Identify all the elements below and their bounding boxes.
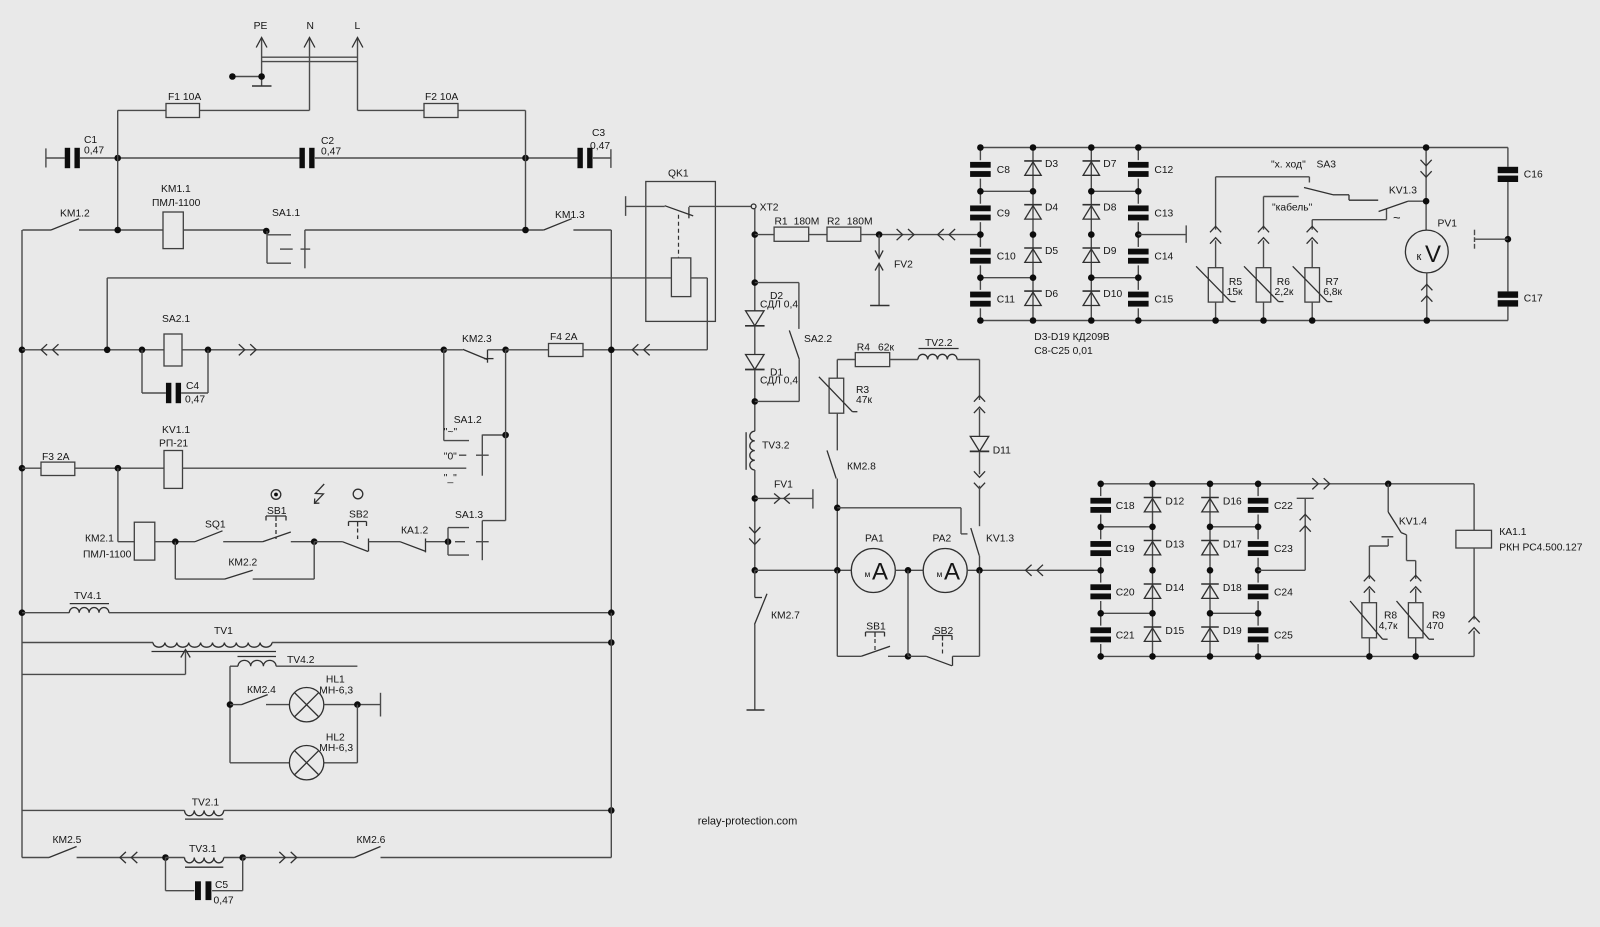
node KV1.3 PV1: [1423, 198, 1430, 205]
wire C1-C2: [80, 157, 300, 159]
wire F4 right: [583, 349, 707, 351]
svg-text:XT2: XT2: [760, 203, 779, 214]
coil SA2.1: [162, 314, 190, 366]
wire PV1 bottom: [1426, 273, 1428, 321]
capacitor C17: [1498, 291, 1543, 306]
contact KM1.2: [23, 209, 91, 231]
svg-text:R2: R2: [827, 217, 840, 228]
diode D18: [1201, 583, 1242, 598]
arrester FV1: [755, 479, 813, 508]
svg-text:А: А: [944, 559, 960, 586]
rheostat R7: [1293, 220, 1343, 324]
node FV1: [752, 495, 759, 502]
node coil row: [104, 347, 111, 354]
wire SA1.3 common corner: [482, 521, 505, 561]
svg-text:C2: C2: [321, 136, 334, 147]
wire D1 down: [754, 370, 756, 431]
svg-text:C1: C1: [84, 135, 97, 146]
node PV1 bottom: [1424, 317, 1431, 324]
node HL1 right: [354, 701, 361, 708]
left bus vertical: [21, 230, 23, 858]
capacitor C1: [65, 135, 105, 168]
wire KV row: [837, 508, 967, 534]
diode D4: [1024, 203, 1058, 220]
svg-text:TV1: TV1: [214, 626, 233, 637]
winding TV3.2: [746, 431, 790, 470]
lamp HL2: [289, 733, 353, 780]
svg-text:C24: C24: [1274, 587, 1293, 598]
node D2 top: [752, 279, 759, 286]
svg-text:SA2.1: SA2.1: [162, 314, 190, 325]
wire to F4: [506, 349, 549, 351]
svg-text:D15: D15: [1165, 626, 1184, 637]
wire bridge1 junction rows: [980, 191, 1138, 277]
contact KM2.2 loop: [175, 542, 314, 579]
contact SB2: [314, 539, 400, 552]
wire bridge1 bottom rail: [980, 320, 1508, 322]
node KM2.4: [227, 701, 234, 708]
svg-text:D4: D4: [1045, 203, 1058, 214]
indicator lamp symbol: [271, 490, 281, 500]
wire bridge1 top rail: [980, 147, 1508, 149]
diode D5: [1024, 246, 1058, 263]
node C2 branch: [522, 227, 529, 234]
wire coil row left corner: [106, 278, 108, 350]
connector arrow left SA2.1 row: [41, 344, 58, 355]
diode D12: [1144, 497, 1185, 512]
svg-text:PA2: PA2: [933, 534, 952, 545]
svg-text:C22: C22: [1274, 501, 1293, 512]
svg-text:KV1.1: KV1.1: [162, 425, 190, 436]
svg-text:KV1.4: KV1.4: [1399, 517, 1427, 528]
wire D2-D1: [754, 326, 756, 354]
svg-text:D3-D19 КД209В: D3-D19 КД209В: [1034, 332, 1109, 343]
svg-text:KM2.3: KM2.3: [462, 334, 492, 345]
svg-text:D8: D8: [1103, 203, 1116, 214]
contact KV1.3: [971, 528, 1015, 570]
svg-text:КМ2.5: КМ2.5: [53, 835, 82, 846]
switch SA3: [1216, 160, 1379, 201]
fuse F4 2A: [549, 332, 584, 357]
wire TV3.2 down: [754, 470, 756, 570]
arrester FV2: [875, 235, 913, 306]
contact KM2.8: [827, 450, 876, 570]
svg-text:D9: D9: [1103, 246, 1116, 257]
svg-text:КМ2.4: КМ2.4: [247, 685, 276, 696]
svg-text:C13: C13: [1154, 208, 1173, 219]
node TV3.1 right: [239, 854, 246, 861]
svg-text:F2 10A: F2 10A: [425, 92, 458, 103]
connector arrow PA row: [1026, 565, 1043, 576]
svg-text:62к: 62к: [878, 343, 894, 354]
node FV2: [876, 231, 883, 238]
node R8 bottom: [1366, 653, 1373, 660]
wire R6 position: [1264, 197, 1313, 214]
wire D3 column: [1032, 148, 1034, 321]
svg-text:РКН РС4.500.127: РКН РС4.500.127: [1499, 543, 1582, 554]
svg-text:0,47: 0,47: [321, 147, 341, 158]
svg-text:SA1.3: SA1.3: [455, 510, 483, 521]
node SA1.3: [445, 538, 452, 545]
wire SA1.1 to KM1.3: [305, 229, 544, 231]
wire D16 column: [1209, 484, 1211, 657]
svg-text:R4: R4: [857, 343, 870, 354]
node TV3.1 left: [162, 854, 169, 861]
diode D8: [1083, 203, 1117, 220]
contact SB2 lower: [908, 656, 980, 666]
label D3-D19: [1034, 332, 1109, 357]
svg-text:"_": "_": [444, 473, 457, 484]
node PA2 right: [976, 567, 983, 574]
svg-text:А: А: [872, 559, 888, 586]
svg-text:C18: C18: [1116, 501, 1135, 512]
contact KM2.6: [354, 835, 611, 858]
lightning symbol: [315, 484, 325, 503]
wire R4-TV2.2: [890, 359, 918, 361]
wire PV1 branch: [1425, 148, 1427, 231]
svg-text:D17: D17: [1223, 540, 1242, 551]
meter PA2: [923, 534, 967, 593]
terminal XT2: [751, 203, 779, 214]
svg-text:КМ2.7: КМ2.7: [771, 611, 800, 622]
svg-text:TV2.1: TV2.1: [192, 797, 220, 808]
node KM2.1 branch: [115, 465, 122, 472]
supply terminal L arrow: [352, 21, 363, 110]
svg-text:15к: 15к: [1227, 287, 1243, 298]
svg-text:HL2: HL2: [326, 733, 345, 744]
svg-text:relay-protection.com: relay-protection.com: [698, 816, 798, 828]
contact SQ1: [195, 520, 226, 542]
node PV1 top: [1423, 144, 1430, 151]
svg-text:C19: C19: [1116, 544, 1135, 555]
terminal bar PV branch: [1475, 230, 1508, 249]
wire KM2.3 down: [443, 350, 445, 441]
ground bar: [252, 85, 272, 87]
resistor R1 180M: [774, 217, 819, 242]
diode D3: [1024, 159, 1058, 176]
svg-text:R1: R1: [775, 217, 788, 228]
svg-text:C5: C5: [215, 880, 228, 891]
svg-text:C17: C17: [1524, 294, 1543, 305]
svg-text:D11: D11: [993, 446, 1011, 457]
node KM2.2 left: [172, 538, 179, 545]
wire KM1.2 to coil: [79, 229, 163, 231]
svg-text:ПМЛ-1100: ПМЛ-1100: [83, 550, 132, 561]
switch SA1.1: [267, 208, 310, 268]
switch SA1.2: [444, 415, 506, 484]
svg-text:PA1: PA1: [865, 534, 884, 545]
wire SB loop right: [979, 570, 981, 656]
wire D12 column: [1152, 484, 1154, 657]
node x611 F4 row: [608, 347, 615, 354]
terminal bar QK1: [625, 196, 627, 216]
node bus SA2.1 row: [19, 347, 26, 354]
wire R7 position: [1312, 208, 1401, 225]
wire SA2.1 row left: [22, 349, 164, 351]
switch SA2.2 branch: [755, 283, 833, 402]
svg-text:C14: C14: [1154, 252, 1173, 263]
svg-text:КМ2.2: КМ2.2: [228, 558, 257, 569]
lamp HL1: [289, 675, 353, 722]
svg-text:KM1.2: KM1.2: [60, 209, 90, 220]
wire F1 row: [118, 109, 310, 111]
capacitor C4 branch: [142, 350, 208, 406]
node SA1.1: [263, 228, 270, 235]
node SB mid: [905, 653, 912, 660]
wire D7 column: [1090, 148, 1092, 321]
coil QK1: [671, 258, 690, 297]
terminal bar right of C3: [610, 149, 612, 168]
svg-text:КМ2.8: КМ2.8: [847, 462, 876, 473]
wire bridge1 mid row right: [1138, 234, 1186, 236]
svg-text:C10: C10: [997, 252, 1016, 263]
svg-text:SB1: SB1: [866, 622, 886, 633]
svg-text:R9: R9: [1432, 611, 1445, 622]
wire SB mid vertical: [907, 570, 909, 656]
rheostat R3 47k: [819, 377, 873, 413]
button SB1 head: [266, 506, 287, 539]
wire vertical x611 upper: [610, 230, 612, 613]
wire HL1 right: [324, 704, 381, 706]
wire R2 right: [861, 234, 981, 236]
svg-text:D13: D13: [1165, 540, 1184, 551]
capacitor C2: [299, 136, 341, 168]
wire HL2 row: [230, 762, 357, 764]
svg-text:4,7к: 4,7к: [1379, 621, 1398, 632]
svg-text:SA3: SA3: [1317, 160, 1337, 171]
svg-text:м: м: [865, 569, 871, 579]
svg-text:SA1.2: SA1.2: [454, 415, 482, 426]
connector arrow KM2.6 row: [279, 852, 296, 863]
coil KM2.1: [83, 522, 155, 560]
node KV1.4 top: [1385, 481, 1392, 488]
meter PV1: [1405, 219, 1457, 273]
node C4 left: [139, 347, 146, 354]
svg-text:KV1.3: KV1.3: [1389, 186, 1417, 197]
capacitor C21: [1090, 613, 1134, 656]
svg-text:C11: C11: [997, 295, 1015, 306]
contact QK1: [626, 206, 752, 219]
svg-text:D14: D14: [1165, 583, 1184, 594]
svg-text:C8: C8: [997, 165, 1010, 176]
svg-text:КА1.1: КА1.1: [1499, 527, 1526, 538]
wire C1 left lead: [46, 157, 65, 159]
diode D9: [1083, 246, 1117, 263]
wire lamp loop right: [356, 705, 358, 763]
diode D2: [745, 291, 798, 326]
nodes bridge2: [1097, 481, 1261, 660]
node KM2.3 left: [441, 347, 448, 354]
site caption: [698, 816, 798, 828]
svg-text:C12: C12: [1154, 165, 1173, 176]
svg-text:0,47: 0,47: [590, 141, 610, 152]
wire R1-R2: [809, 234, 827, 236]
svg-text:470: 470: [1426, 621, 1443, 632]
button SB2 head: [349, 510, 369, 539]
connector arrow right SA2.1 row: [239, 344, 256, 355]
wire bridge2 bottom rail: [1101, 655, 1474, 657]
node x611 TV4.1 row: [608, 609, 615, 616]
rheostat R9: [1397, 561, 1446, 657]
svg-text:HL1: HL1: [326, 675, 345, 686]
contact KV1.3 meter: [1379, 186, 1427, 212]
node C16 mid: [1505, 236, 1512, 243]
node SA1.2 common: [502, 432, 509, 439]
wire KV1.1 to SA1.2: [183, 467, 467, 469]
node KM2.8 KV row: [834, 505, 841, 512]
svg-text:TV3.1: TV3.1: [189, 844, 217, 855]
svg-text:С8-С25 0,01: С8-С25 0,01: [1034, 346, 1093, 357]
node C1 junction: [114, 155, 121, 162]
diode D16: [1201, 497, 1242, 512]
supply terminal N arrow: [304, 21, 315, 110]
svg-text:0,47: 0,47: [185, 395, 205, 406]
capacitor C16: [1498, 167, 1543, 182]
diode D19: [1201, 626, 1242, 641]
svg-text:C20: C20: [1116, 587, 1135, 598]
svg-text:C4: C4: [186, 381, 199, 392]
switch SA1.3: [448, 510, 489, 555]
node PA1 left: [834, 567, 841, 574]
svg-text:47к: 47к: [856, 395, 872, 406]
svg-text:D19: D19: [1223, 626, 1242, 637]
node x611 TV1 row: [608, 639, 615, 646]
wire PA2 right: [967, 569, 1100, 571]
svg-text:C23: C23: [1274, 544, 1293, 555]
svg-text:C3: C3: [592, 128, 605, 139]
node PA mid: [905, 567, 912, 574]
resistor R2 180M: [827, 217, 873, 242]
svg-text:"кабель": "кабель": [1272, 202, 1313, 214]
capacitor C20: [1090, 570, 1134, 613]
wire TV1 tap arrow: [22, 650, 190, 675]
svg-text:к: к: [1417, 251, 1422, 263]
svg-text:6,8к: 6,8к: [1323, 287, 1342, 298]
capacitor C15: [1128, 278, 1174, 321]
svg-text:SA1.1: SA1.1: [272, 208, 300, 219]
svg-text:2,2к: 2,2к: [1275, 287, 1294, 298]
svg-text:TV4.1: TV4.1: [74, 591, 102, 602]
wire KM1.1 to SA1.1: [183, 229, 266, 231]
svg-text:"х. ход": "х. ход": [1271, 160, 1306, 171]
svg-text:D5: D5: [1045, 246, 1058, 257]
terminal bar bridge1: [1185, 225, 1187, 242]
capacitor C14: [1128, 235, 1174, 278]
contact SB1 lower: [861, 646, 908, 656]
svg-text:QK1: QK1: [668, 169, 689, 180]
svg-text:SB2: SB2: [349, 510, 369, 521]
wire coil to SQ1: [155, 541, 195, 543]
nodes bridge1: [977, 144, 1141, 324]
diode D7: [1083, 159, 1117, 176]
svg-text:КМ2.1: КМ2.1: [85, 534, 114, 545]
capacitor C8: [970, 148, 1010, 192]
wire bridge2 top rail: [1101, 483, 1474, 485]
svg-text:КМ2.6: КМ2.6: [357, 835, 386, 846]
wire C16 column: [1507, 148, 1509, 321]
svg-text:C15: C15: [1154, 295, 1173, 306]
wire vertical x118: [117, 110, 119, 230]
svg-text:F4 2A: F4 2A: [550, 332, 578, 343]
svg-text:МН-6,3: МН-6,3: [319, 685, 353, 696]
wire SB1 to node: [291, 541, 314, 543]
node KM2.3 right: [502, 347, 509, 354]
node KM1.1 left: [114, 227, 121, 234]
svg-text:м: м: [937, 569, 943, 579]
capacitor C23: [1248, 527, 1293, 571]
wire C22 terminal branch: [1258, 498, 1314, 570]
capacitor C5 branch: [166, 858, 243, 907]
svg-text:D10: D10: [1103, 289, 1122, 300]
wire bridge2 junction rows: [1101, 527, 1258, 614]
terminal bar left of C1: [45, 148, 47, 167]
wire coil row y278: [107, 277, 671, 279]
wire PA row: [755, 569, 852, 571]
svg-text:C9: C9: [997, 208, 1010, 219]
contact KM2.5: [22, 835, 166, 858]
wire SQ1 to SB1: [223, 541, 262, 543]
svg-text:KV1.3: KV1.3: [986, 534, 1014, 545]
rheostat R5: [1196, 177, 1243, 324]
relay QK1 box: [646, 169, 716, 322]
capacitor C10: [970, 235, 1016, 278]
capacitor C22: [1248, 484, 1293, 527]
node SB1 right: [311, 538, 318, 545]
contact KM2.7: [755, 570, 801, 710]
svg-text:FV2: FV2: [894, 260, 913, 271]
capacitor C13: [1128, 191, 1174, 234]
wire SA2.1 right: [182, 349, 444, 351]
svg-text:D6: D6: [1045, 289, 1058, 300]
wire F3 left: [22, 467, 41, 469]
svg-text:МН-6,3: МН-6,3: [319, 743, 353, 754]
coil KV1.1: [159, 425, 190, 488]
svg-text:0,47: 0,47: [84, 146, 104, 157]
supply double bus: [262, 57, 358, 61]
svg-text:F3 2A: F3 2A: [42, 452, 70, 463]
wire SB loop left: [837, 570, 861, 656]
node x611 TV2.1 row: [608, 807, 615, 814]
svg-text:КА1.2: КА1.2: [401, 526, 428, 537]
fuse F3 2A: [41, 452, 75, 476]
relay KA1.1: [1456, 484, 1583, 657]
svg-text:ПМЛ-1100: ПМЛ-1100: [152, 198, 201, 209]
svg-text:SB1: SB1: [267, 506, 287, 517]
rheostat R6: [1244, 197, 1294, 324]
svg-text:N: N: [307, 21, 314, 32]
contact KA1.2: [400, 526, 448, 553]
svg-text:СДЛ 0,4: СДЛ 0,4: [760, 376, 798, 387]
wire TV2.2 right: [957, 360, 979, 401]
diode D1: [745, 355, 798, 387]
connector arrow PV1 lower: [1421, 284, 1432, 301]
svg-text:0,47: 0,47: [214, 896, 234, 907]
wire KM2.6 row: [243, 857, 355, 859]
node D1 bottom: [752, 398, 759, 405]
ground stub wire: [229, 73, 265, 80]
contact KM1.3: [544, 210, 612, 230]
terminal bar lamp row: [380, 693, 382, 717]
capacitor C19: [1090, 527, 1134, 571]
diode D11: [970, 436, 1011, 456]
contact SB1: [263, 532, 291, 542]
rheostat R8: [1350, 546, 1398, 656]
wire C2-C3: [315, 157, 578, 159]
connector arrow down D11 branch: [974, 471, 985, 488]
diode D6: [1024, 289, 1058, 306]
svg-text:SA2.2: SA2.2: [804, 334, 832, 345]
dashed link QK1: [678, 215, 680, 258]
